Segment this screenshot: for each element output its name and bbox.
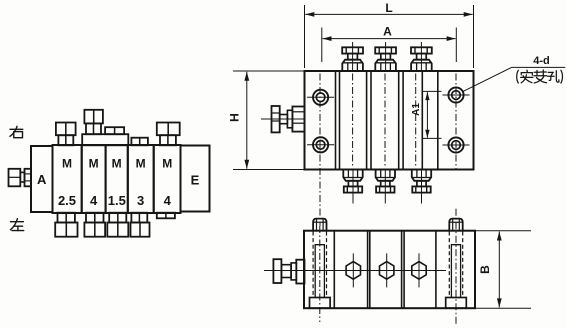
side outlet fitting, plan view bbox=[261, 118, 305, 120]
svg-text:3: 3 bbox=[137, 193, 144, 208]
mounting hole top-right bbox=[443, 87, 470, 102]
inlet section A bbox=[31, 146, 53, 212]
svg-text:B: B bbox=[478, 265, 492, 274]
svg-text:A: A bbox=[383, 25, 392, 39]
inlet fitting on left of section A bbox=[9, 169, 21, 187]
svg-text:4: 4 bbox=[164, 193, 172, 208]
svg-text:A1: A1 bbox=[411, 103, 422, 116]
bottom fitting below M3 bbox=[131, 213, 147, 223]
left end plate edge bbox=[335, 71, 337, 170]
svg-text:4-d: 4-d bbox=[533, 55, 550, 67]
top fitting on bridge, tall bbox=[84, 110, 103, 124]
low fitting above M3 bbox=[131, 138, 148, 146]
svg-text:1.5: 1.5 bbox=[108, 193, 126, 208]
svg-text:H: H bbox=[228, 113, 242, 122]
tie bolt right bbox=[446, 209, 467, 326]
hex plug 2 bbox=[380, 253, 394, 287]
right end plate edge bbox=[437, 71, 439, 170]
metering section M 4 bbox=[82, 145, 106, 213]
tie bolt left bbox=[310, 219, 331, 322]
side outlet fitting, side view bbox=[273, 259, 281, 283]
mounting hole bottom-right bbox=[443, 137, 470, 152]
dimension B bbox=[476, 231, 531, 309]
svg-text:2.5: 2.5 bbox=[58, 193, 76, 208]
dimension L bbox=[305, 1, 474, 68]
svg-text:A: A bbox=[37, 172, 47, 187]
metering section M 3 bbox=[128, 145, 154, 213]
label right (Chinese you) bbox=[10, 126, 23, 137]
svg-text:M: M bbox=[89, 157, 99, 171]
section centerlines bbox=[352, 74, 354, 168]
svg-text:4: 4 bbox=[90, 193, 98, 208]
dimension H bbox=[228, 71, 305, 170]
top fitting above M4b bbox=[157, 123, 180, 136]
label left (Chinese zuo) bbox=[10, 219, 23, 231]
section division lines bbox=[333, 231, 335, 309]
svg-text:E: E bbox=[191, 173, 200, 188]
svg-text:L: L bbox=[385, 1, 392, 15]
grease nipple top 3 bbox=[411, 42, 432, 71]
bottom fitting below M1.5 bbox=[109, 213, 126, 223]
low fitting on bridge right bbox=[105, 127, 124, 134]
mounting hole top-left bbox=[307, 90, 334, 105]
horizontal centerline bbox=[264, 270, 446, 272]
label (anzhuangkong) mounting hole note bbox=[517, 70, 563, 83]
body outline bbox=[305, 71, 474, 170]
grease nipple top 1 bbox=[342, 42, 363, 71]
metering section M 1.5 bbox=[106, 145, 128, 213]
dimension A1 bbox=[411, 91, 442, 138]
end section E bbox=[181, 146, 210, 212]
bottom fitting below M4 bbox=[86, 213, 104, 223]
centerline right plate (runs to lower view) bbox=[455, 74, 457, 170]
metering section M 4b bbox=[154, 145, 181, 213]
grease nipple bottom 1 bbox=[343, 170, 362, 204]
grease nipple bottom 3 bbox=[412, 170, 431, 204]
metering section M 2.5 bbox=[53, 145, 82, 213]
svg-text:M: M bbox=[136, 157, 146, 171]
dimension A bbox=[322, 25, 457, 63]
svg-text:M: M bbox=[62, 157, 72, 171]
hex plug 1 bbox=[346, 253, 360, 287]
svg-text:M: M bbox=[112, 157, 122, 171]
centerline left plate (runs through both views) bbox=[319, 74, 321, 227]
section division lines bbox=[366, 71, 368, 170]
bottom fitting below M2.5 bbox=[58, 213, 75, 223]
hex plug 3 bbox=[412, 253, 426, 287]
body outline bbox=[304, 231, 475, 309]
raised bridge bar on top of middle sections bbox=[82, 134, 128, 145]
mounting hole bottom-left bbox=[307, 137, 334, 152]
grease nipple bottom 2 bbox=[376, 170, 395, 204]
grease nipple top 2 bbox=[375, 42, 396, 71]
leader and label 4-d (mounting holes) bbox=[463, 55, 566, 91]
top fitting above M2.5 bbox=[56, 123, 76, 136]
low fitting below M4b bbox=[157, 213, 175, 219]
svg-text:M: M bbox=[162, 157, 172, 171]
